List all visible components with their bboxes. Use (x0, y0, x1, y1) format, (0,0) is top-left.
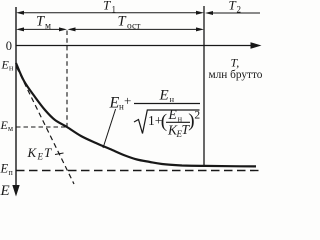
svg-text:E: E (37, 152, 44, 162)
svg-text:T: T (44, 145, 52, 160)
svg-text:(: ( (161, 111, 167, 132)
formula leader line (103, 109, 116, 148)
Tost dimension arrow (71, 28, 202, 30)
svg-text:2: 2 (194, 110, 200, 122)
main decay curve (16, 63, 256, 166)
svg-text:E: E (168, 107, 178, 122)
svg-text:1: 1 (112, 5, 117, 15)
svg-text:2: 2 (237, 5, 242, 15)
svg-text:E: E (0, 183, 10, 197)
svg-text:+: + (124, 93, 131, 108)
svg-text:E: E (0, 161, 9, 175)
svg-text:млн брутто: млн брутто (209, 69, 263, 81)
E axis down arrowhead (12, 185, 19, 197)
svg-text:T: T (103, 0, 111, 13)
fraction bar (134, 103, 200, 105)
svg-text:м: м (45, 22, 51, 32)
svg-text:п: п (9, 168, 14, 177)
radical sign (134, 110, 200, 134)
Tm dimension arrow (19, 28, 64, 30)
svg-text:T,: T, (231, 56, 240, 70)
svg-text:T: T (118, 14, 127, 30)
svg-text:K: K (27, 145, 38, 160)
dashed vertical at Tm boundary (66, 31, 68, 128)
svg-text:н: н (9, 64, 14, 73)
svg-text:E: E (159, 88, 169, 104)
tangent dashed line KET (17, 67, 75, 184)
svg-text:0: 0 (6, 39, 12, 53)
svg-text:T: T (36, 14, 45, 30)
T2 line (208, 12, 260, 14)
inner fraction bar (166, 121, 190, 123)
horizontal T axis (0 line) (16, 45, 252, 47)
T axis right arrowhead (251, 42, 262, 49)
T1 dimension arrow (19, 12, 201, 14)
svg-text:н: н (170, 94, 175, 104)
svg-text:T: T (229, 0, 237, 13)
formula: En + En / sqrt(1+(En/KET)^2) (109, 88, 201, 139)
vertical E axis (15, 7, 17, 190)
vertical boundary line at end of T1 (203, 6, 205, 165)
svg-text:E: E (109, 94, 120, 111)
svg-text:ост: ост (127, 22, 141, 32)
Ep dashed asymptote (16, 170, 260, 172)
Em dashed horizontal (16, 126, 67, 128)
svg-text:м: м (8, 124, 13, 133)
